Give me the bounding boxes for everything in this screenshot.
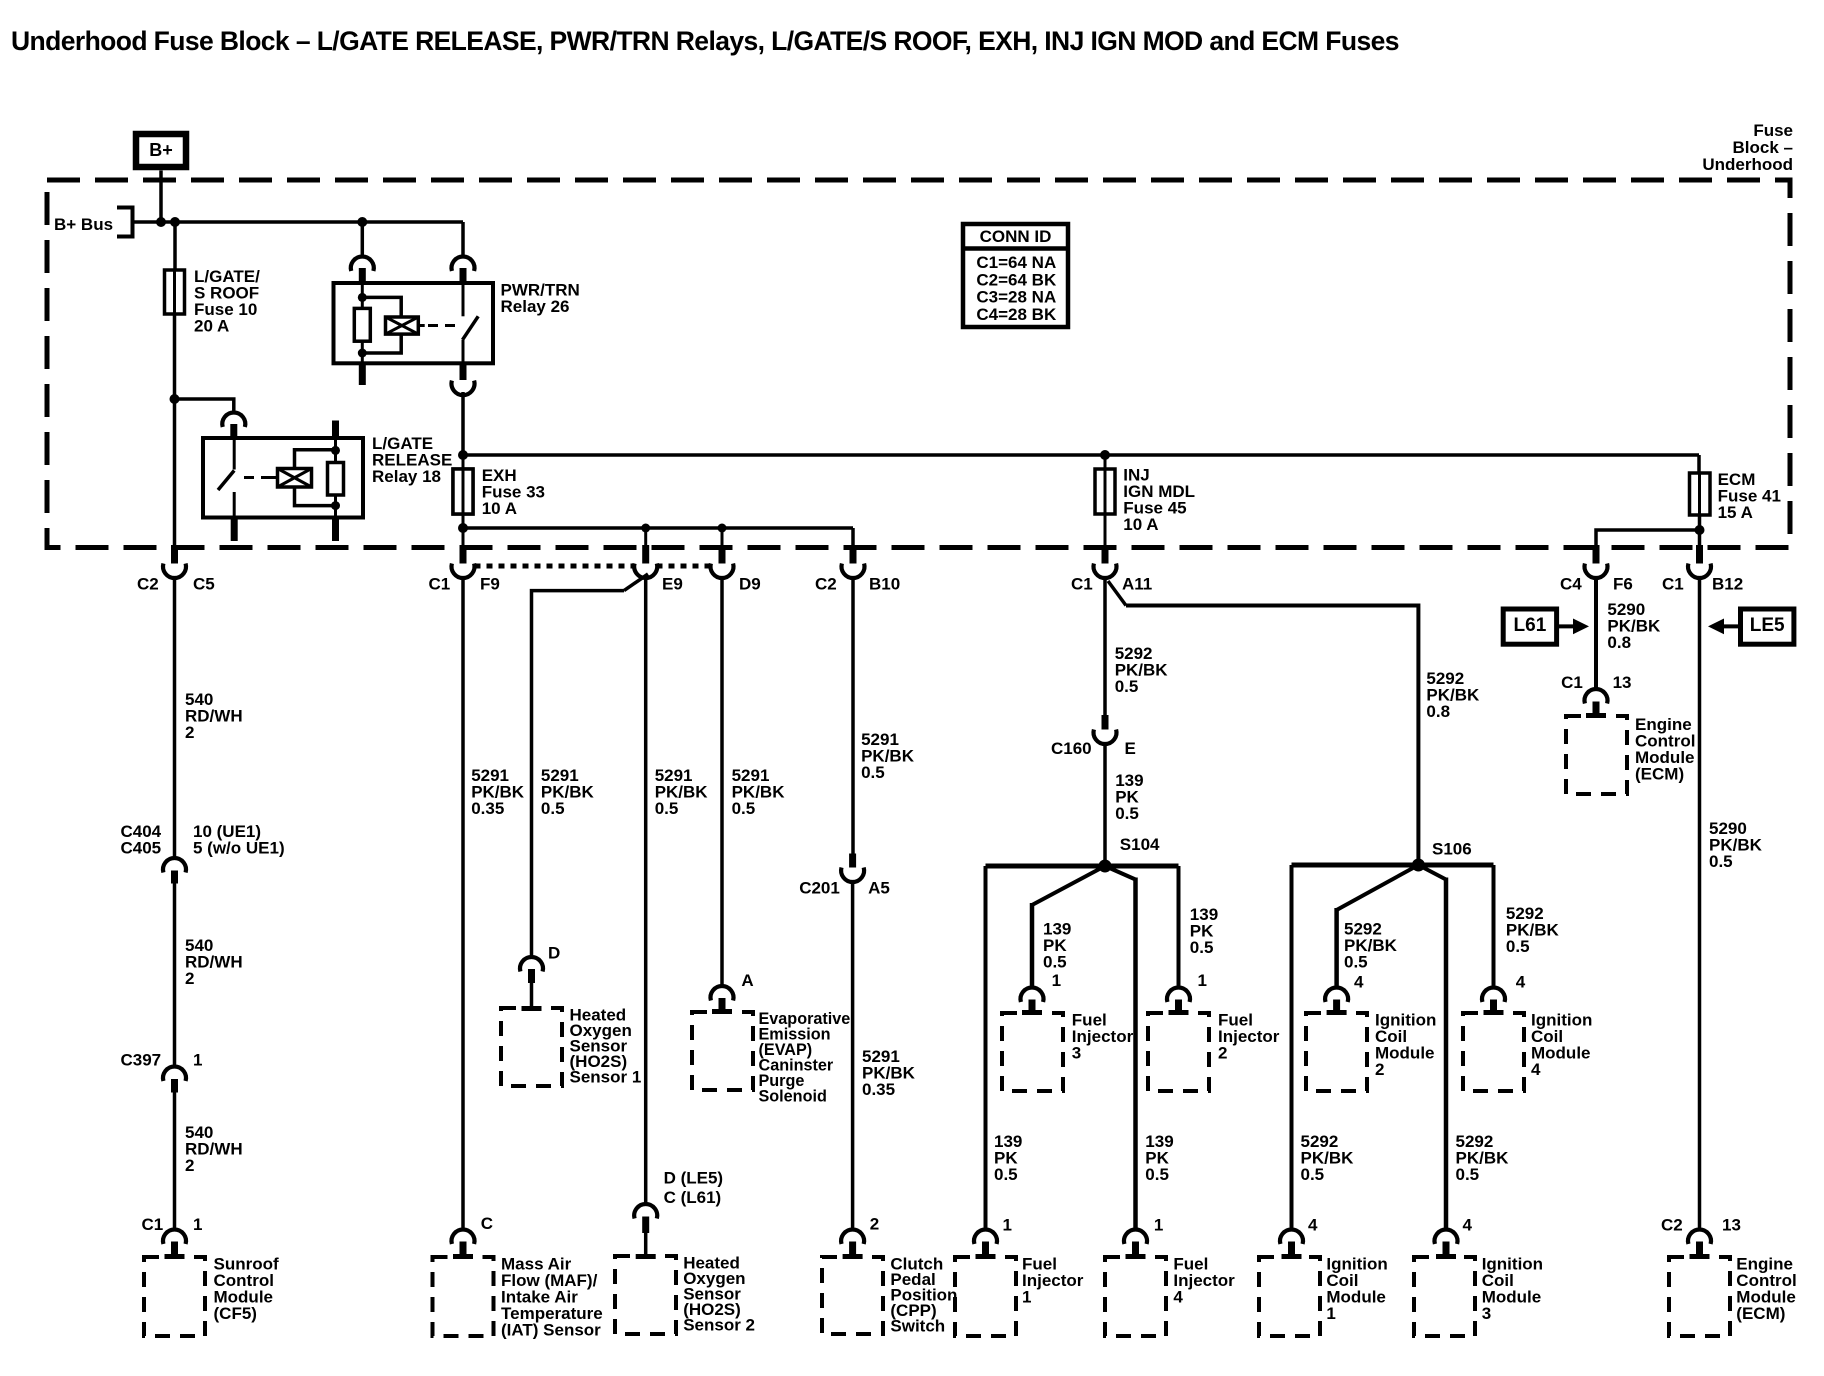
svg-text:13: 13 [1613,673,1632,692]
wire C404 to C397 [173,884,177,1067]
svg-text:2: 2 [870,1214,879,1233]
relay 26 coil wire + junctions [361,283,364,308]
svg-text:0.5: 0.5 [655,799,679,818]
svg-text:0.5: 0.5 [1145,1165,1169,1184]
fuse F33 EXH 10A [453,469,473,514]
wire S104 bus [986,864,1179,869]
svg-text:A: A [741,971,753,990]
connector C160 pin E [1102,715,1109,730]
wire D connector into HO2S1 [530,983,534,1008]
connector pin 4 at ignition coil module 1 [1280,1229,1303,1244]
component: Engine Control Module (ECM) top [1566,716,1627,794]
wire S106 to ignition coil module 1 [1290,865,1294,1230]
wire C5 column inside block [173,399,177,545]
wire A11 to C160 [1103,579,1107,716]
svg-text:A5: A5 [868,878,890,897]
svg-text:E9: E9 [662,574,683,593]
wire relay 26 output down [461,392,465,455]
relay 18 switch pin connector (top left) [222,412,245,427]
wire S104 to fuel injector 2 [1177,866,1181,988]
connector C1 pin F9 (fuse block exit) [460,545,467,564]
svg-text:L61: L61 [1514,615,1547,636]
svg-text:Relay 26: Relay 26 [501,297,570,316]
svg-text:C201: C201 [799,878,840,897]
svg-text:10 A: 10 A [1123,515,1158,534]
wire F9 to MAF sensor [461,579,465,1230]
svg-text:D9: D9 [739,574,761,593]
svg-text:C5: C5 [193,574,215,593]
connector pin 2 at CPP switch [841,1229,864,1244]
svg-text:0.5: 0.5 [1301,1165,1325,1184]
svg-text:1: 1 [1052,971,1061,990]
connector pin 4 at ignition coil module 3 [1435,1229,1458,1244]
relay 18 coil wire + junctions [334,438,337,463]
wire B10 to C201 [851,579,855,854]
relay 26 switch pin connector (top right) [452,256,475,271]
wire E9 to HO2S2 [644,579,648,1205]
connector pin D9 (fuse block exit) [719,545,726,564]
splice S106 [1412,859,1425,872]
svg-text:1: 1 [193,1050,202,1069]
relay 18 switch contacts [233,438,236,470]
connector pin A at EVAP solenoid [711,986,734,1001]
component: Ignition Coil Module 1 [1259,1257,1320,1336]
relay 26 solenoid parallel loop [362,297,401,317]
wire S104 to fuel injector 4 [1105,866,1136,880]
svg-text:1: 1 [1198,971,1207,990]
connector pin D/C at HO2S2 [634,1204,657,1219]
svg-text:S104: S104 [1120,835,1160,854]
wire B+ to bus [159,171,163,223]
svg-text:0.5: 0.5 [1456,1165,1480,1184]
svg-text:0.5: 0.5 [1344,952,1368,971]
junction relay 26 coil drop [357,217,367,227]
wire bus corner down to relay 26 switch pin [461,222,465,257]
svg-text:C1=64 NA: C1=64 NA [976,253,1056,272]
relay 26 coil resistor [354,308,370,341]
component: Fuel Injector 2 [1148,1013,1209,1091]
fuse F10 L/GATE/S ROOF 20A [165,270,185,314]
svg-text:0.5: 0.5 [1506,937,1530,956]
connector C2 pin B10 (fuse block exit) [850,545,857,564]
connector C1 pin A11 (fuse block exit) [1102,545,1109,564]
svg-text:3: 3 [1072,1043,1081,1062]
svg-text:C3=28 NA: C3=28 NA [976,288,1056,307]
connector pin E9 (fuse block exit) [642,545,649,564]
connector pin D at HO2S1 [520,957,543,972]
svg-text:B+ Bus: B+ Bus [54,215,113,234]
svg-text:S106: S106 [1432,839,1472,858]
component: Sunroof Control Module (CF5) [144,1257,205,1336]
svg-text:0.5: 0.5 [732,799,756,818]
component: Ignition Coil Module 4 [1463,1013,1524,1091]
junction ECM fuse output [1695,525,1705,535]
svg-text:E: E [1125,739,1136,758]
svg-text:C1: C1 [1071,574,1093,593]
svg-text:1: 1 [193,1215,202,1234]
wire F6 to ECM (top) [1594,579,1598,690]
svg-text:4: 4 [1308,1215,1318,1234]
svg-text:C405: C405 [121,838,162,857]
svg-text:2: 2 [185,969,194,988]
wire B10 drop [851,528,855,545]
connector C1 pin 13 at ECM (top) [1585,689,1608,704]
connector pin C at MAF/IAT [452,1229,475,1244]
svg-text:C1: C1 [1662,574,1684,593]
wire S104 to fuel injector 3 [1032,866,1105,905]
svg-text:4: 4 [1516,972,1526,991]
svg-text:20 A: 20 A [194,316,229,335]
connector C4 pin F6 (fuse block exit) [1593,545,1600,564]
svg-text:D: D [548,943,560,962]
svg-text:2: 2 [185,1156,194,1175]
junction B+ drop [156,217,166,227]
wire A11 branch to S106 [1108,581,1126,606]
svg-text:13: 13 [1722,1215,1741,1234]
wire E9 drop [644,528,647,545]
relay 18 linkage (dashed) + solenoid input [244,476,271,479]
junction EXH fuse [458,450,468,460]
svg-text:F9: F9 [480,574,500,593]
wire branch to F6 pin [1596,530,1700,545]
connector C1 pin 1 at sunroof module [163,1229,186,1244]
svg-text:0.5: 0.5 [1115,677,1139,696]
svg-text:Underhood Fuse Block – L/GATE: Underhood Fuse Block – L/GATE RELEASE, P… [11,26,1399,56]
svg-text:0.5: 0.5 [1115,804,1139,823]
junction fuse 10 drop [170,217,180,227]
svg-text:4: 4 [1173,1287,1183,1306]
svg-text:1: 1 [1003,1215,1012,1234]
dotted connector face line E9-D9 [657,564,712,569]
wire corner to ECM fuse [1697,455,1701,473]
component: Fuel Injector 4 [1105,1257,1166,1336]
svg-text:4: 4 [1354,972,1364,991]
svg-text:0.5: 0.5 [541,799,565,818]
connector C1 pin B12 (fuse block exit) [1696,545,1703,564]
svg-text:0.35: 0.35 [862,1080,895,1099]
svg-text:D (LE5): D (LE5) [664,1168,724,1187]
svg-text:C2: C2 [815,574,837,593]
connector C404/C405 [163,858,186,873]
CONN ID table [963,224,1068,327]
wire S104 to fuel injector 1 [984,866,988,1230]
wire S106 to ignition coil module 3 [1418,865,1446,880]
option tag L61 with arrow [1503,609,1556,644]
svg-text:C: C [481,1214,493,1233]
relay 26 coil bottom stub [359,363,366,385]
relay 18 coil resistor [328,463,344,496]
svg-text:0.5: 0.5 [1709,852,1733,871]
connector C2 pin C5 (fuse block exit) [171,545,178,564]
connector pin 4 at ignition coil module 4 [1482,987,1505,1002]
svg-text:0.8: 0.8 [1426,702,1450,721]
component: Engine Control Module (ECM) bottom [1669,1257,1730,1336]
wire bus to relay 26 coil pin [361,222,365,257]
fuse block boundary (dashed box) [47,180,1790,548]
wire S106 bus [1292,863,1494,868]
svg-text:C4: C4 [1560,574,1582,593]
svg-text:15 A: 15 A [1718,503,1753,522]
wire S106 to ignition coil module 4 [1492,865,1496,988]
relay 26 coil pin connector (top left) [351,256,374,271]
relay 18 coil top stub [332,421,339,439]
wire into HO2S2 [644,1233,648,1256]
svg-text:Sensor 1: Sensor 1 [570,1067,642,1086]
wire fuse 10 to junction [173,314,177,399]
svg-text:2: 2 [1218,1043,1227,1062]
svg-text:Underhood: Underhood [1702,155,1793,174]
svg-text:C1: C1 [429,574,451,593]
svg-text:10 A: 10 A [482,499,517,518]
component: Ignition Coil Module 3 [1414,1257,1475,1336]
junction EXH sub-bus [458,523,468,533]
svg-text:1: 1 [1022,1287,1031,1306]
svg-text:2: 2 [1375,1060,1384,1079]
wire: EXH sub-bus [463,526,853,530]
wire B12 to ECM (bottom) [1698,579,1702,1230]
svg-text:C1: C1 [142,1215,164,1234]
junction INJ fuse [1100,450,1110,460]
relay 18 bottom stubs [231,518,238,542]
svg-text:B+: B+ [149,140,173,160]
fuse F45 INJ IGN MDL 10A [1104,455,1107,545]
svg-text:LE5: LE5 [1750,615,1785,636]
connector pin 1 at fuel injector 3 [1021,987,1044,1002]
wire E9 branch to HO2S1 [624,574,648,591]
option tag LE5 with arrow [1741,609,1794,644]
svg-text:Switch: Switch [890,1316,945,1335]
component: Fuel Injector 3 [1002,1013,1063,1091]
connector C201 pin A5 [849,854,856,868]
relay 26 solenoid output + linkage (dashed) [418,324,424,327]
connector pin 1 at fuel injector 2 [1167,987,1190,1002]
wire: main feed from relay 26 to INJ and ECM fuses [463,453,1699,457]
wire ECM fuse to junction [1698,515,1702,545]
svg-text:Relay 18: Relay 18 [372,467,441,486]
svg-text:3: 3 [1482,1304,1491,1323]
relay 26 switch output pin [460,363,467,380]
connector C2 pin 13 at ECM (bottom) [1688,1229,1711,1244]
relay 18 solenoid parallel loop [295,450,336,469]
svg-text:5 (w/o UE1): 5 (w/o UE1) [193,838,285,857]
svg-text:A11: A11 [1122,574,1152,593]
svg-text:C4=28 BK: C4=28 BK [976,305,1057,324]
svg-text:0.5: 0.5 [994,1165,1018,1184]
connector C397 pin 1 [163,1066,186,1081]
splice S104 [1099,860,1112,873]
svg-text:(ECM): (ECM) [1635,764,1684,783]
connector pin 1 at fuel injector 1 [974,1229,997,1244]
svg-text:CONN ID: CONN ID [980,227,1052,246]
svg-text:C1: C1 [1561,673,1583,692]
wire S106 to ignition coil module 2 [1337,865,1419,910]
wire: B+ bus horizontal [133,220,464,224]
junction relay 18 feed [170,394,180,404]
svg-text:C2: C2 [137,574,159,593]
wire D9 drop [721,528,724,545]
svg-text:4: 4 [1531,1060,1541,1079]
connector pin 4 at ignition coil module 2 [1325,987,1348,1002]
B+ Bus bracket [117,208,133,237]
wire D9 to EVAP solenoid [720,579,724,987]
relay K26 PWR/TRN box [334,283,494,363]
svg-text:0.5: 0.5 [1190,938,1214,957]
fuse F41 ECM 15A [1690,473,1711,515]
svg-text:1: 1 [1154,1215,1163,1234]
svg-text:C (L61): C (L61) [664,1188,722,1207]
svg-text:0.35: 0.35 [471,799,504,818]
relay 18 solenoid box [278,469,312,488]
svg-text:C160: C160 [1051,739,1092,758]
B+ terminal [136,134,186,167]
relay 26 solenoid box [386,317,419,334]
component: Fuel Injector 1 [955,1257,1016,1336]
component: Clutch Pedal Position (CPP) Switch [822,1257,883,1334]
component: Evaporative Emission (EVAP) Caninster Purge Solenoid [692,1012,753,1090]
relay 26 switch contacts [462,283,465,316]
wire C397 to sunroof module [173,1093,177,1230]
svg-text:(IAT) Sensor: (IAT) Sensor [501,1320,601,1339]
svg-text:(CF5): (CF5) [214,1304,257,1323]
svg-text:B10: B10 [869,574,900,593]
component: Heated Oxygen Sensor (HO2S) Sensor 1 [501,1008,562,1086]
svg-text:0.5: 0.5 [861,763,885,782]
svg-text:0.5: 0.5 [1043,952,1067,971]
wire to relay 18 switch pin [175,399,234,413]
wire C160 to S104 [1103,745,1107,867]
svg-text:0.8: 0.8 [1607,633,1631,652]
dotted connector face line F9-E9 [475,564,636,569]
svg-text:F6: F6 [1613,574,1633,593]
svg-text:2: 2 [185,723,194,742]
svg-text:C397: C397 [121,1050,162,1069]
svg-text:(ECM): (ECM) [1736,1304,1785,1323]
component: Heated Oxygen Sensor (HO2S) Sensor 2 [615,1256,676,1334]
svg-text:C2: C2 [1661,1215,1683,1234]
svg-text:B12: B12 [1712,574,1743,593]
svg-text:Sensor 2: Sensor 2 [683,1315,755,1334]
svg-text:4: 4 [1463,1215,1473,1234]
connector pin 1 at fuel injector 4 [1124,1229,1147,1244]
svg-text:C2=64 BK: C2=64 BK [976,270,1057,289]
component: Ignition Coil Module 2 [1306,1013,1367,1091]
wire C201 to CPP switch [851,883,855,1230]
svg-text:1: 1 [1326,1304,1335,1323]
wire C5 to C404 [173,579,177,859]
wire fuse 10 feed [173,222,177,270]
relay K18 L/GATE RELEASE box [203,438,363,518]
component: Mass Air Flow (MAF)/Intake Air Temperature (IAT) Sensor [433,1257,494,1336]
svg-text:Solenoid: Solenoid [759,1087,827,1105]
